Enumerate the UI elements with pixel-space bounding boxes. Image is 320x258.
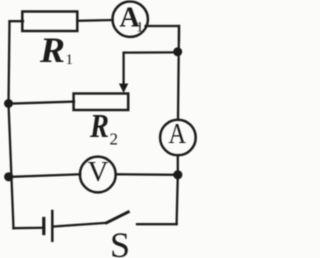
wire: left rail node to voltmeter V [9,174,81,177]
svg-text:S: S [110,225,130,258]
rheostat wiper arrowhead [119,84,128,94]
svg-text:2: 2 [110,130,119,149]
voltmeter V [80,157,116,193]
wire: left rail (top corner down to bottom corner) [9,21,14,228]
battery positive plate (long) [51,211,54,241]
svg-text:1: 1 [136,20,144,36]
wire: node to rheostat wiper arrow [124,52,178,85]
wire: left rail node to rheostat R2 [9,102,75,104]
node dot: left rail to voltmeter junction [4,172,13,181]
rheostat R2 [74,94,129,111]
wire: A1 output to right rail corner [146,26,179,40]
node dot: right rail wiper junction [173,47,182,56]
svg-text:R: R [89,108,109,145]
wire: battery to switch S [54,223,107,227]
wire: right rail from corner through node down to ammeter A [178,26,179,120]
node dot: right rail voltmeter junction [173,170,182,179]
wire: bottom-left corner to battery [14,227,44,230]
svg-text:1: 1 [66,52,74,68]
wire: R1 to ammeter A1 [77,19,112,22]
node dot: left rail to R2 junction [4,99,13,108]
wire: top-left corner to resistor R1 [10,20,24,22]
resistor R1 [22,12,77,32]
ammeter A [160,120,196,156]
ammeter A1 [113,2,148,37]
battery negative plate (short) [42,219,45,234]
wire: voltmeter V to right rail node [116,173,178,176]
svg-text:V: V [88,156,109,188]
wire: switch to bottom-right corner [137,223,177,225]
svg-text:R: R [39,30,65,70]
svg-text:A: A [169,119,187,150]
switch S blade [107,212,129,223]
wire: ammeter A bottom through node to bottom-right corner [177,155,178,224]
